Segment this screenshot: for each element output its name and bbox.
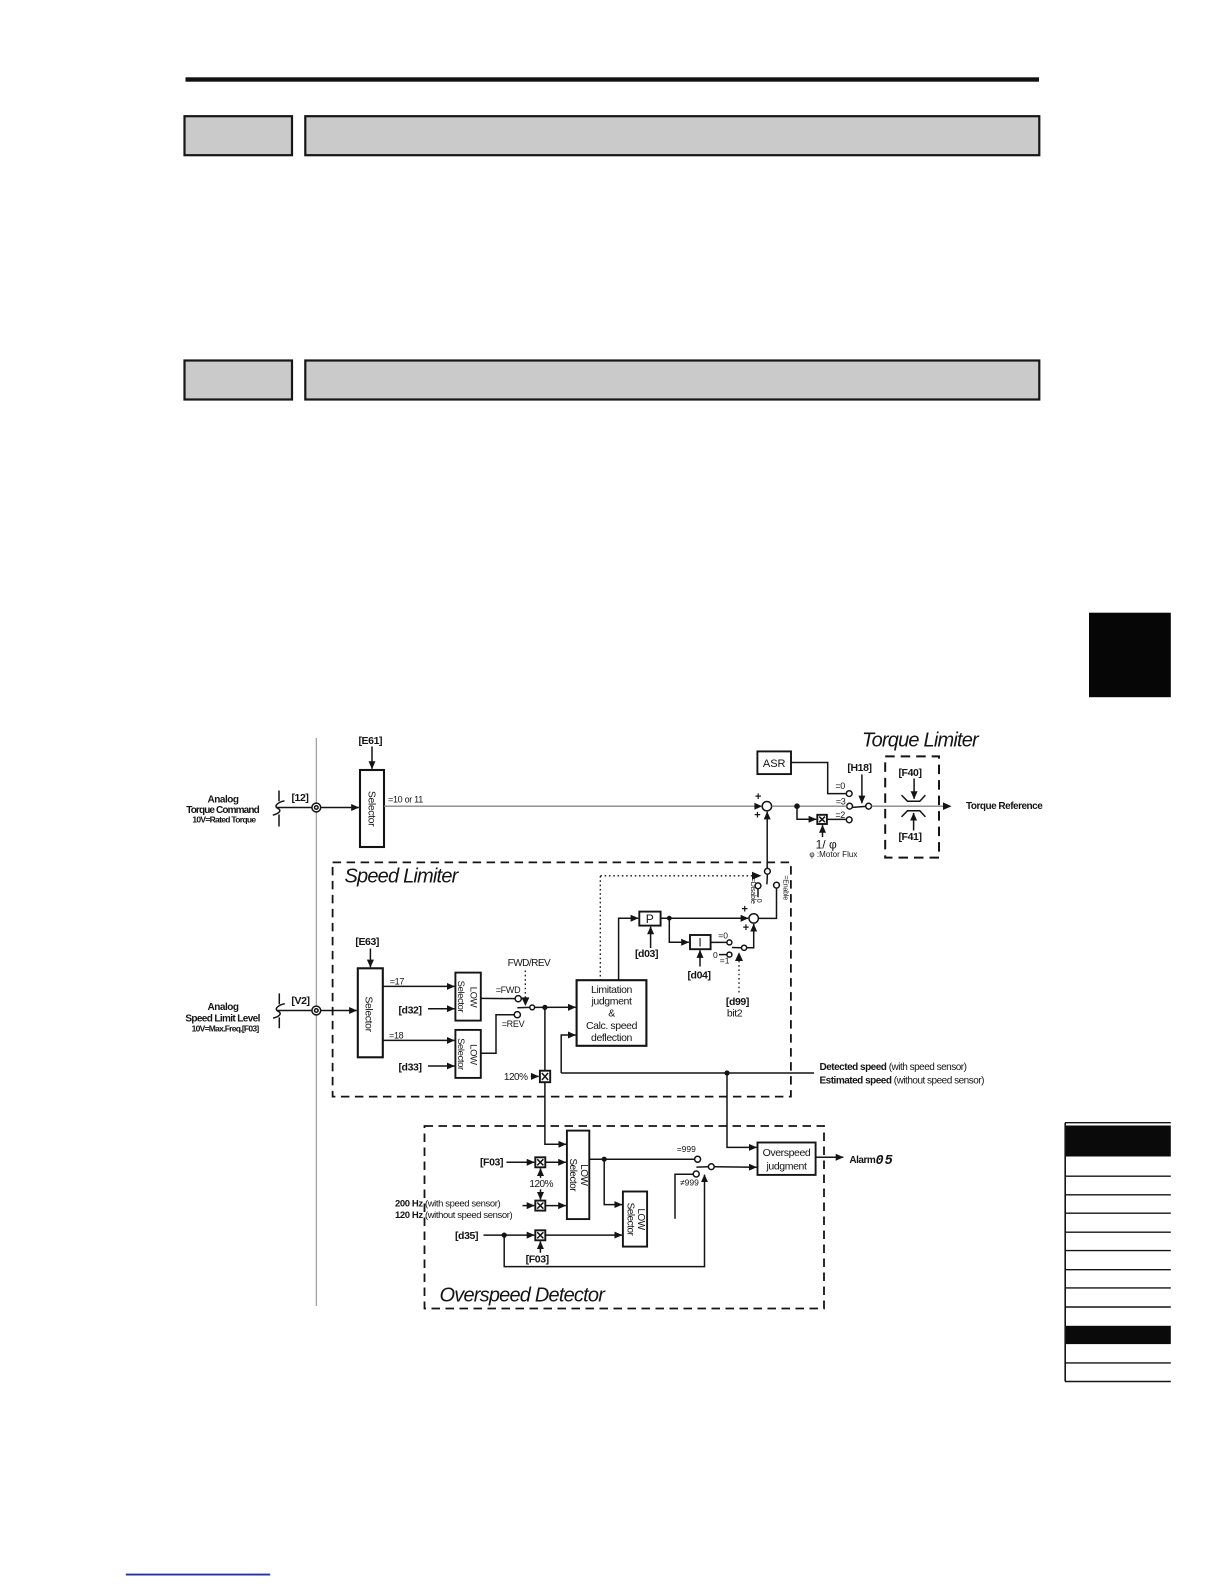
limiter clamp upper [902,795,926,801]
svg-text:Analog: Analog [208,794,239,805]
wire: speed limiter correction up into summing junction 1 [766,812,768,869]
svg-text:+: + [741,904,747,916]
svg-text:[V2]: [V2] [291,995,309,1007]
svg-text:FWD/REV: FWD/REV [508,958,551,969]
low selector box (overspeed main) [567,1131,589,1220]
multiplier box 120% (speed limiter) [540,1071,550,1083]
wire: detected speed branch to overspeed judgment [727,1073,757,1147]
svg-text:10V=Max.Freq.[F03]: 10V=Max.Freq.[F03] [192,1024,260,1034]
wire: F40 arrow to limiter [913,779,915,799]
switch pivot enable/disable [765,868,771,874]
contact 0=Disable [749,878,762,904]
wire: d99 switch to summing junction 2 [747,924,754,948]
label: Analog Torque Command [186,794,259,824]
svg-text:Analog: Analog [208,1002,239,1013]
wire: I output to contact =0 [711,941,727,943]
footer blue rule [126,1574,270,1576]
label 1/flux [809,838,857,860]
selector box (torque command source, E61) [360,770,384,847]
svg-text:judgment: judgment [766,1161,807,1173]
summing junction 1 [754,791,771,822]
switch pivot H18 [866,803,872,809]
svg-text:120 Hz (without speed sensor): 120 Hz (without speed sensor) [395,1210,512,1221]
wire: V2 terminal stub [277,1010,311,1012]
gray header box row2 right [305,361,1039,400]
svg-text:120%: 120% [504,1072,528,1083]
low selector box (overspeed small) [623,1192,647,1247]
wire: E61 arrow into selector [371,747,373,769]
svg-text:[H18]: [H18] [847,762,871,774]
svg-text:=17: =17 [390,976,405,986]
dotted wire: fwd/rev selection arrow [521,971,529,1007]
contact =2 [835,810,852,822]
svg-text:120%: 120% [529,1179,553,1190]
wire: multiplier to contact =2 [827,818,846,820]
svg-text:judgment: judgment [591,996,632,1008]
wire: enable contact down to summing junction 2 output [758,888,776,918]
svg-text:Selector: Selector [362,996,374,1032]
svg-text:=18: =18 [389,1030,404,1040]
svg-text:φ :Motor Flux: φ :Motor Flux [809,850,857,859]
wire: d33 arrow into low selector rev [428,1065,454,1067]
svg-text:I: I [698,935,701,949]
wire: d32 arrow into low selector fwd [428,1008,454,1010]
svg-text:Estimated speed (without speed: Estimated speed (without speed sensor) [820,1075,985,1086]
svg-text:=Enable: =Enable [782,875,789,900]
P box [639,912,660,926]
svg-text:=999: =999 [677,1144,696,1154]
wire: selector =17 to low selector fwd [383,985,454,987]
svg-text:Detected speed (with speed sen: Detected speed (with speed sensor) [820,1062,967,1073]
wire: 999 switch into overspeed judgment [714,1166,756,1169]
wire: terminal 12 into selector E61 [321,807,359,809]
wire: selector =18 to low selector rev [383,1039,454,1041]
wire: terminal V2 into selector E63 [321,1010,357,1012]
svg-text:[F41]: [F41] [898,831,921,843]
dotted wire: limitation judgment to disable/enable switch [600,872,761,980]
arrowhead into summing point 1 [754,803,762,810]
label [d99] bit2 [726,996,749,1020]
label Alarm OS [849,1154,893,1169]
multiplier box F03x120 lower [535,1201,545,1211]
wire: H18 selection arrow [861,775,863,804]
junction dot d35 [502,1233,507,1238]
label 120% (overspeed) with arrows [529,1168,553,1199]
svg-text:=FWD: =FWD [496,985,521,995]
svg-text:[d35]: [d35] [455,1230,478,1242]
overspeed detector dashed box [425,1126,825,1309]
contact =FWD [496,985,522,1002]
svg-text:[12]: [12] [291,792,308,804]
switch pivot fwd/rev [530,1005,535,1010]
svg-text:Overspeed: Overspeed [763,1147,811,1159]
svg-text:+: + [755,791,761,803]
svg-text:=REV: =REV [502,1019,525,1029]
wire: not-999 stub [675,1174,693,1219]
contact =1 (d99) with 0 stub [713,950,732,966]
svg-text:[d03]: [d03] [635,948,658,960]
wire: limitation judgment up to P [619,918,639,980]
svg-text:Selector: Selector [624,1203,635,1237]
wire: branch into small low selector [604,1159,622,1204]
svg-text:P: P [646,912,654,926]
wire: F03 arrow into multiplier [507,1161,535,1163]
overspeed judgment box [758,1143,816,1175]
switch pivot 999 [708,1164,714,1170]
svg-text:[d32]: [d32] [398,1004,421,1016]
svg-text:=0: =0 [835,781,845,791]
multiplier box d35xF03 [535,1230,545,1240]
wire: 1/flux arrow into multiplier [822,825,824,837]
wire: torque line pivot to output [872,805,946,807]
wire: d35 into multiplier [484,1234,535,1236]
label 120% with arrow [504,1072,539,1083]
wire: d35 branch to not-999 arrow [504,1175,704,1267]
svg-text:200 Hz (with speed sensor): 200 Hz (with speed sensor) [395,1199,500,1210]
svg-text:LOW: LOW [468,1044,479,1065]
svg-text:0: 0 [713,950,718,960]
wire: P output down to I [669,918,689,942]
gray header box row1 left [185,116,293,155]
svg-text:Torque Reference: Torque Reference [966,801,1043,812]
limiter clamp lower [902,811,926,817]
svg-text:ASR: ASR [763,758,786,770]
switch blade 999 [696,1166,708,1168]
wire: ASR to contact =0 [791,763,846,794]
wire: low selector fwd output [481,997,515,999]
wire: d35 multiplier to small low selector [545,1234,622,1236]
low selector box rev [455,1030,481,1078]
wire: low selector rev output [481,1015,514,1054]
label 200Hz/120Hz [395,1199,512,1221]
label: Analog Speed Limit Level [185,1002,260,1034]
wire: fwd/rev switch to limitation judgment [535,1006,576,1008]
wire: 200/120Hz into lower multiplier [523,1205,535,1207]
I box [690,935,711,949]
svg-text:=Disable: =Disable [749,878,756,904]
wire: overspeed judgment output [816,1156,844,1158]
svg-text:+: + [743,922,749,934]
svg-text:[d33]: [d33] [398,1061,421,1073]
svg-text:=10 or 11: =10 or 11 [388,795,423,805]
break symbol: torque command input [273,791,285,827]
wire: d04 arrow into I [699,950,701,966]
svg-text:=0: =0 [718,930,728,940]
wire: P output to summing junction 2 [661,917,749,919]
wire: 12 terminal to selector [277,807,312,809]
wire: lower multiplier into low selector [545,1205,566,1207]
wire: detected speed line [561,1072,814,1074]
svg-text:=2: =2 [835,810,845,820]
svg-text:Limitation: Limitation [591,984,632,996]
dotted wire: d99 selection arrow [735,952,743,992]
junction dot on torque line [794,803,800,809]
svg-text:[d04]: [d04] [687,970,710,982]
contact =3 (H18) [836,796,853,809]
wire: torque line junction1 to contact =3 [772,805,847,807]
svg-text:[F40]: [F40] [898,767,921,779]
wire: F03 arrow up into d35 multiplier [539,1241,541,1252]
node: analog common bus line [315,738,317,1306]
gray header box row2 left [185,361,293,400]
limitation judgment box [577,980,647,1046]
summing junction 2 [741,904,758,935]
junction dot speed limit [542,1005,547,1010]
gray header box row1 right [305,116,1039,155]
svg-text:Torque Limiter: Torque Limiter [862,730,980,752]
svg-text:=3: =3 [836,796,846,806]
svg-text:bit2: bit2 [727,1008,743,1020]
svg-text:[F03]: [F03] [480,1156,503,1168]
wire: detected speed into limitation judgment [561,1035,575,1073]
switch pivot d99 [742,945,747,950]
wire: low selector output to contact =999 [589,1158,694,1160]
svg-text:Selector: Selector [366,791,378,827]
switch blade fwd/rev [517,1006,529,1008]
wire: branch to 1/flux multiplier [797,806,816,819]
svg-text:[E63]: [E63] [355,936,379,948]
terminal 12 double circle [312,803,321,812]
contact not-999 [680,1171,699,1188]
svg-text:LOW: LOW [635,1208,646,1230]
wire: torque reference line (selector to summing point) [384,805,757,807]
contact =0 (d99) [718,930,732,945]
side table [1065,1123,1171,1382]
svg-text:[F03]: [F03] [526,1253,549,1265]
svg-text:10V=Rated Torque: 10V=Rated Torque [192,815,256,825]
label Detected/Estimated speed [820,1062,985,1086]
wire: upper multiplier into low selector [545,1161,566,1163]
contact =999 [677,1144,701,1162]
arrowhead torque reference output [943,802,952,810]
selector box (speed limit source, E63) [358,968,383,1057]
wire: speed limit down through 120% multiplier [545,1007,566,1144]
junction dot P output [667,916,672,921]
wire: E63 arrow into selector [369,949,371,968]
svg-text:Overspeed Detector: Overspeed Detector [440,1284,607,1306]
terminal V2 double circle [312,1006,321,1015]
svg-text:Selector: Selector [455,1038,466,1070]
svg-text:=1: =1 [720,956,730,966]
switch blade d99 [732,947,742,949]
torque limiter dashed box [885,756,939,857]
svg-text:LOW: LOW [578,1164,589,1186]
junction dot overspeed [602,1157,607,1162]
multiplier box 1/flux [817,815,827,824]
ASR box [757,751,791,774]
svg-text:[d99]: [d99] [726,996,749,1008]
svg-text:LOW: LOW [468,987,479,1008]
svg-text:Calc. speed: Calc. speed [586,1020,638,1032]
contact =0 (H18) [835,781,852,796]
contact =Enable [774,875,789,900]
svg-text:deflection: deflection [591,1032,633,1044]
svg-text:≠999: ≠999 [680,1178,699,1188]
low selector box fwd [455,973,481,1021]
wire: F41 arrow to limiter [913,813,915,831]
multiplier box F03x120 upper [535,1157,545,1167]
svg-text:+: + [754,810,760,822]
svg-text:Speed Limiter: Speed Limiter [345,866,460,888]
svg-text:05: 05 [876,1154,894,1169]
svg-text:Selector: Selector [455,981,466,1013]
junction dot detected speed [724,1070,729,1075]
svg-text:Alarm: Alarm [849,1155,875,1166]
speed limiter dashed box [333,862,791,1096]
svg-text:Selector: Selector [567,1158,578,1192]
wire: d03 arrow into P [650,927,652,948]
switch blade enable/disable [766,874,769,884]
svg-text:[E61]: [E61] [358,735,382,747]
svg-text:&: & [608,1008,615,1020]
black side tab [1089,613,1171,698]
break symbol: speed limit input [273,993,285,1028]
switch blade H18 [853,806,866,807]
page top rule [186,77,1040,81]
contact =REV [502,1012,525,1029]
